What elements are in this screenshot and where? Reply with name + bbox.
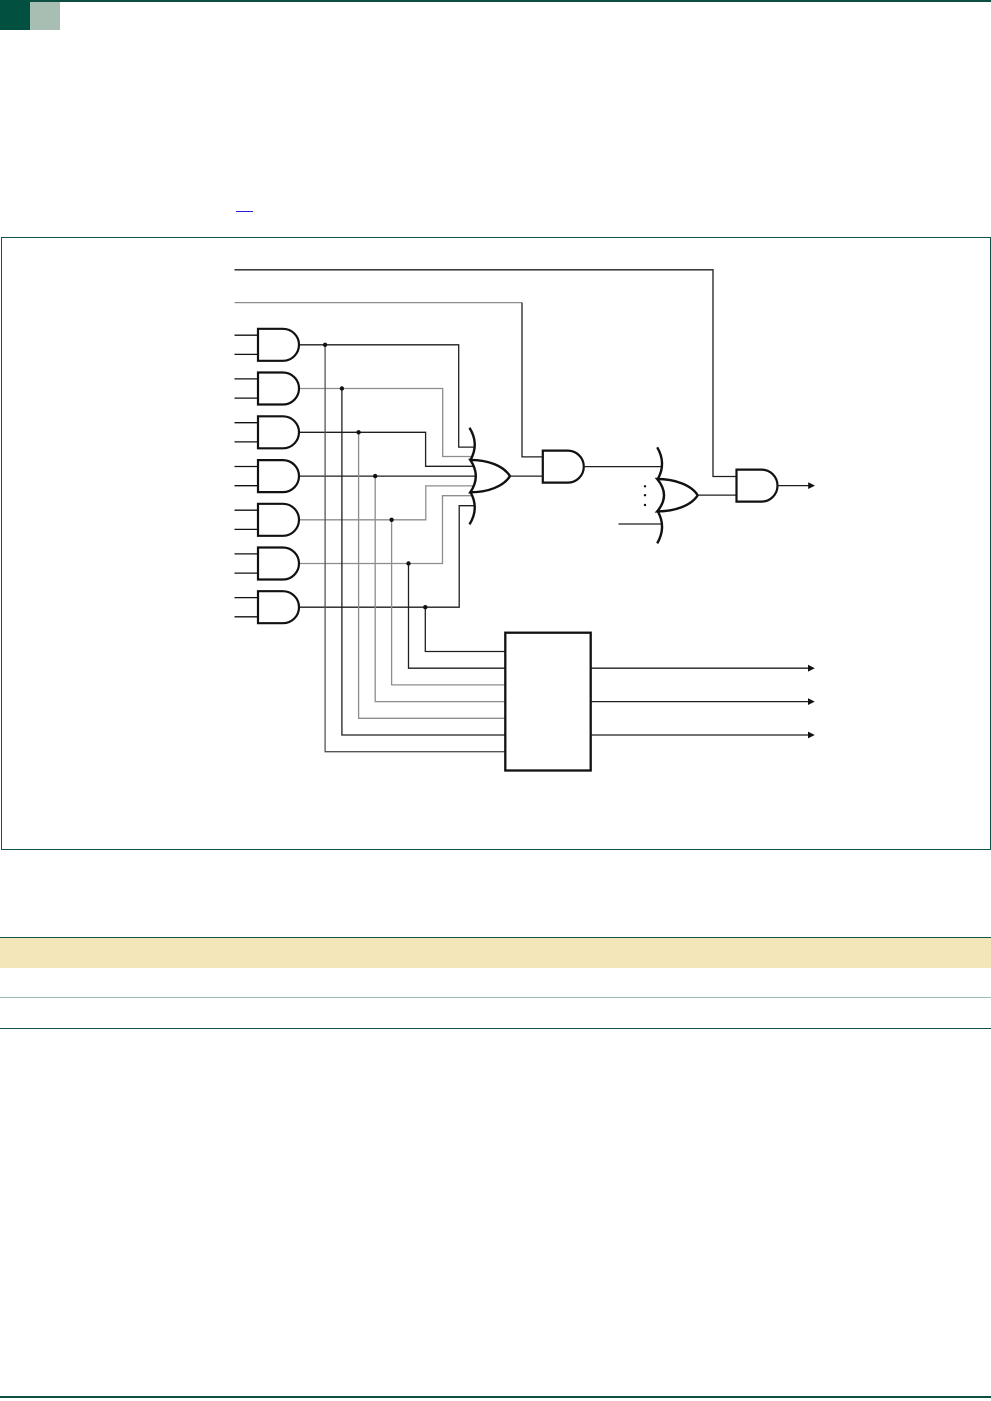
wire gate7 output to OR: [299, 506, 475, 608]
arrowhead output: [808, 482, 815, 489]
wire gate1 output to OR: [299, 345, 475, 447]
header light green square: [30, 2, 60, 30]
second OR gate lower wing: [657, 511, 662, 543]
page bottom rule: [0, 1396, 991, 1398]
table header top border: [0, 937, 991, 938]
wire gate5 output to OR: [299, 486, 474, 520]
big OR gate upper wing: [470, 428, 475, 460]
wire feedback gate7 to decoder: [425, 607, 505, 651]
wire feedback gate5 to decoder: [392, 520, 506, 685]
junction dot gate1: [323, 343, 327, 347]
wire net B vertical: [522, 303, 543, 457]
wire middle AND output: [584, 466, 661, 468]
AND gate 1 with input stubs: [235, 329, 300, 361]
wire feedback gate3 to decoder: [359, 432, 506, 718]
figure frame: [1, 237, 991, 850]
output AND gate: [737, 470, 778, 502]
wire gate4 output to OR: [299, 475, 476, 477]
middle AND gate: [543, 451, 584, 483]
wire feedback gate2 to decoder: [342, 389, 505, 736]
second OR gate body: [657, 479, 698, 511]
wire gate2 output to OR: [299, 389, 472, 457]
wire decoder output 1: [591, 667, 809, 669]
junction dot gate3: [356, 430, 360, 434]
ellipsis dots on second OR: [644, 485, 646, 506]
wire output arrow: [778, 485, 810, 487]
table header tan bar: [0, 938, 991, 968]
wire gate6 output to OR: [299, 496, 472, 564]
wire feedback gate1 to decoder: [325, 345, 505, 752]
arrowhead decoder output 2: [808, 698, 815, 705]
wire net B (second feedback to middle AND): [235, 302, 523, 304]
wire second OR output: [698, 494, 737, 496]
AND gate 3 with input stubs: [235, 416, 300, 448]
hyperlink underline: [236, 211, 253, 212]
wire feedback gate6 to decoder: [409, 564, 506, 669]
wire gate3 output to OR: [299, 432, 474, 466]
junction dot gate7: [423, 605, 427, 609]
AND gate 2 with input stubs: [235, 373, 300, 405]
junction dot gate2: [340, 386, 344, 390]
arrowhead decoder output 1: [808, 665, 815, 672]
wire feedback gate4 to decoder: [375, 476, 505, 701]
table row separator light: [0, 997, 991, 998]
second OR gate upper wing: [657, 447, 662, 479]
header top rule: [0, 0, 991, 2]
big OR gate lower wing: [470, 492, 475, 524]
wire net A (top feedback to output AND): [235, 270, 737, 477]
AND gate 4 with input stubs: [235, 460, 300, 492]
AND gate 7 with input stubs: [235, 591, 300, 623]
big OR gate body: [470, 460, 510, 492]
arrowhead decoder output 3: [808, 732, 815, 739]
junction dot gate5: [389, 518, 393, 522]
AND gate 6 with input stubs: [235, 548, 300, 580]
junction dot gate6: [406, 561, 410, 565]
AND gate 5 with input stubs: [235, 504, 300, 536]
wire unconnected input stub to second OR: [619, 523, 662, 525]
decoder box: [505, 633, 590, 771]
header dark green square: [0, 0, 30, 30]
wire decoder output 2: [591, 701, 809, 703]
junction dot gate4: [373, 474, 377, 478]
wire big OR output to middle AND: [510, 475, 543, 477]
table bottom border: [0, 1028, 991, 1030]
wire decoder output 3: [591, 734, 809, 736]
